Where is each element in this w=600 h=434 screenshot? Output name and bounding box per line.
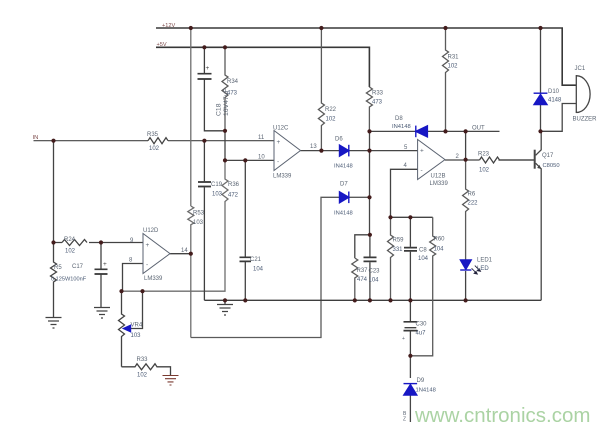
junction D7 cathode node [367,195,371,199]
svg-text:U12D: U12D [143,228,159,234]
capacitor C17 plates [95,269,108,274]
junction ground bus/R59 [388,298,392,302]
svg-text:D7: D7 [340,182,348,188]
wire IN horizontal [34,140,275,142]
svg-text:+: + [103,261,107,268]
wire D8 OUT line [370,130,500,132]
transistor Q17 [499,131,542,300]
diode D10 [534,94,547,104]
diode D9 line [409,356,411,422]
svg-text:473: 473 [372,100,383,106]
capacitor C18 plates [198,74,212,79]
capacitor C23 [364,235,377,301]
junction OUT/R31 [443,129,447,133]
svg-text:www.cntronics.com: www.cntronics.com [414,404,590,427]
svg-text:U12C: U12C [273,126,289,132]
junction VR4 wiper [140,289,144,293]
svg-text:LM339: LM339 [144,276,163,282]
svg-text:C8050: C8050 [543,163,560,169]
wire R37 C23 tap [355,235,370,258]
svg-text:R5: R5 [54,265,62,271]
wire IN drop [53,141,55,243]
svg-text:+: + [277,139,281,146]
svg-text:4: 4 [404,163,408,169]
svg-text:473: 473 [227,91,238,97]
junction OUT/R6 branch [464,129,468,133]
resistor R33 bottom [122,364,171,375]
svg-text:LED1: LED1 [477,258,493,264]
junction ground bus/C21 [243,298,247,302]
junction pin8/VR4 top [119,289,123,293]
junction +12V/R31 [443,26,447,30]
svg-text:103: 103 [193,220,204,226]
ground (bus) [217,300,233,315]
svg-text:4148: 4148 [548,98,562,104]
junction +5V/C18 [202,45,206,49]
svg-text:104: 104 [369,278,380,284]
svg-text:+: + [146,242,150,249]
svg-text:-: - [421,167,423,174]
svg-text:IN4148: IN4148 [334,164,353,170]
capacitor C21 [240,160,252,300]
junction +12V/R22 [319,26,323,30]
junction ground bus/C8/C30 [408,298,412,302]
op-amp U12D wires pin8 [123,264,144,292]
svg-text:D6: D6 [335,137,343,143]
wire U12B pin4 [391,169,433,217]
svg-text:IN: IN [33,135,39,141]
svg-text:D9: D9 [417,378,425,384]
svg-text:-: - [277,159,279,166]
svg-text:R24: R24 [64,237,76,243]
svg-text:R59: R59 [393,238,405,244]
svg-text:104: 104 [418,256,429,262]
junction ground bus/ground symbol [223,298,227,302]
svg-text:331: 331 [393,247,404,253]
svg-text:103: 103 [131,333,142,339]
junction R24/C17 [99,240,103,244]
wire D7 cathode [349,196,370,198]
junction pin10/C21 [243,158,247,162]
svg-text:11: 11 [258,135,265,141]
resistor R60 [410,217,435,355]
svg-text:0.125W100nF: 0.125W100nF [51,277,87,283]
svg-text:R23: R23 [478,152,490,158]
svg-text:R33: R33 [137,357,149,363]
junction C18/R34 node [223,129,227,133]
svg-text:14: 14 [181,248,188,254]
svg-text:C21: C21 [250,257,262,263]
potentiometer VR4 wires [119,291,143,367]
resistor R23 [480,157,500,163]
wire OUT node vertical [465,131,467,159]
svg-text:OUT: OUT [472,126,485,132]
wire LED1 to bus [465,271,467,300]
svg-text:R6: R6 [468,192,476,198]
svg-text:C19: C19 [211,182,223,188]
svg-text:R37: R37 [357,268,369,274]
svg-text:+12V: +12V [162,23,175,29]
svg-text:R60: R60 [434,237,446,243]
svg-text:C8: C8 [419,248,427,254]
diode D7 [340,192,349,203]
capacitor C18 [198,47,226,131]
resistor R33 top [366,87,372,131]
svg-text:+: + [402,336,405,342]
resistor R22 [318,28,324,151]
svg-text:4u7: 4u7 [416,331,427,337]
svg-text:2: 2 [456,154,460,160]
svg-text:IN4148: IN4148 [334,211,353,217]
svg-text:1N4148: 1N4148 [416,388,436,394]
junction pin10/R36 node [223,158,227,162]
op-amp U12B output wire [445,159,534,161]
svg-text:102: 102 [326,117,337,123]
capacitor C23 plates [364,257,377,261]
wire loop bottom to D7 [191,197,340,337]
svg-text:102: 102 [137,373,148,379]
diode D8 [416,126,428,137]
ground (R5) [46,318,62,329]
junction D6/U12B pin5 [367,149,371,153]
svg-text:R31: R31 [448,55,460,61]
svg-text:472: 472 [228,193,239,199]
junction Q17 collector/D10/buzzer [538,129,542,133]
capacitor C17 [95,243,108,308]
resistor R31 [443,28,449,131]
LED LED1 [460,260,471,269]
op-amp U12C output wire [301,150,418,152]
svg-text:IN4148: IN4148 [392,124,411,130]
resistor R36 [122,160,229,291]
svg-text:+: + [206,65,210,72]
capacitor C30 [404,300,418,355]
svg-text:R22: R22 [325,107,337,113]
junction +12V/R53 pull-up [189,26,193,30]
wire U12C pin10 [225,159,274,161]
wire U12D output [170,253,191,255]
node line x=190.8 with resistor R53 [190,28,192,338]
svg-text:LM339: LM339 [273,174,292,180]
capacitor C8 [404,217,417,300]
junction D8 cathode node [367,129,371,133]
svg-text:C23: C23 [369,269,381,275]
junction U12B out/R6 [464,158,468,162]
svg-text:D10: D10 [548,89,560,95]
junction IN/C19 [202,139,206,143]
svg-text:10: 10 [258,155,265,161]
capacitor C8 plates [404,248,417,251]
svg-text:104: 104 [253,267,264,273]
capacitor C21 plates [240,257,252,261]
svg-text:R33: R33 [372,91,384,97]
svg-text:102: 102 [149,146,160,152]
diode D6 [340,145,349,156]
svg-text:474: 474 [357,277,368,283]
junction +12V/D10 [538,26,542,30]
capacitor C30 plates [404,322,418,331]
junction ground bus/LED1 [464,298,468,302]
wire collector to buzzer [541,104,577,132]
junction ground bus/C23 [368,298,372,302]
junction U12C out/R22/D6 [319,149,323,153]
ground (C17) [94,308,110,319]
svg-text:R35: R35 [147,132,159,138]
resistor R53 [188,206,194,233]
svg-text:R36: R36 [228,182,240,188]
junction pin4/R59 [388,215,392,219]
resistor R6 [463,160,469,260]
junction U12D out/R53 [189,252,193,256]
svg-text:+5V: +5V [157,42,167,48]
svg-text:8: 8 [129,258,133,264]
resistor R59 [388,217,394,300]
op-amp U12C [274,131,301,171]
+12V rail [156,28,576,85]
buzzer JC1 [576,75,590,113]
junction R37/C23 tap [368,233,372,237]
svg-text:R34: R34 [227,79,239,85]
svg-text:102: 102 [65,249,76,255]
svg-text:Q17: Q17 [542,153,554,159]
resistor R5 [51,243,57,318]
svg-text:LED: LED [477,266,489,272]
svg-text:C30: C30 [416,322,428,328]
svg-text:BUZZER: BUZZER [573,117,598,123]
svg-text:13: 13 [310,144,317,150]
junction C30/D9/R60 node [408,354,412,358]
svg-text:-: - [146,262,148,269]
LED1 arrows [472,266,481,274]
svg-text:Z: Z [403,417,406,423]
svg-text:D8: D8 [395,116,403,122]
svg-text:102: 102 [448,64,459,70]
wire node x=369.5 reference chain [369,131,371,234]
svg-text:222: 222 [468,201,479,207]
op-amp U12B [418,140,445,180]
svg-text:104: 104 [434,247,445,253]
ground (R33, brown) [163,376,179,386]
svg-text:VR4: VR4 [131,323,143,329]
ground bus [204,299,541,301]
svg-text:C18: C18 [216,103,223,116]
svg-text:LM339: LM339 [430,181,449,187]
wire x=225 node [224,131,226,161]
svg-text:+: + [420,148,424,155]
junction +5V/R34 [223,45,227,49]
junction IN/R24 branch [51,139,55,143]
diode D9 [404,385,417,395]
diode D10 line [540,28,542,131]
transistor Q17 emitter arrow [537,165,541,169]
junction R24/R5 [51,240,55,244]
resistor R35 [148,138,168,144]
resistor R34 [222,47,228,131]
resistor R37 [352,258,358,300]
svg-text:U12B: U12B [431,174,446,180]
capacitor C19 plates [198,182,211,187]
svg-text:JC1: JC1 [575,66,586,72]
capacitor C19 [198,141,211,301]
svg-text:C17: C17 [72,264,84,270]
resistor R24 [54,240,144,246]
junction ground bus/R37 [353,298,357,302]
op-amp U12D [143,234,170,274]
svg-text:102: 102 [479,168,490,174]
+5V rail [156,47,369,87]
svg-text:R53: R53 [193,211,205,217]
potentiometer VR4 arrow [124,325,131,331]
diodes blue [124,93,548,395]
junction pin4/C8 [408,215,412,219]
svg-text:103: 103 [212,192,223,198]
